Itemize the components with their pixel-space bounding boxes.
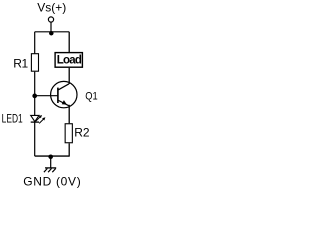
svg-text:R2: R2 [74, 126, 90, 140]
svg-text:R1: R1 [13, 56, 28, 70]
wire R1 to LED1 [34, 72, 36, 116]
wire R2 to bottom rail [68, 143, 70, 156]
supply terminal Vs [48, 17, 53, 22]
svg-text:Q1: Q1 [85, 91, 98, 103]
wire bottom rail [35, 155, 69, 157]
svg-text:Load: Load [57, 54, 82, 66]
load box [55, 53, 82, 68]
wire terminal to top rail [50, 22, 52, 32]
wire ground stub [50, 156, 52, 168]
LED1 [31, 115, 46, 123]
resistor R2 [65, 124, 72, 143]
wire base [35, 95, 58, 97]
svg-text:LED1: LED1 [2, 113, 23, 126]
junction ground [48, 155, 53, 160]
wire top rail to Load [68, 32, 70, 52]
junction base node [32, 94, 37, 99]
wire collector [68, 68, 70, 84]
svg-text:GND (0V): GND (0V) [23, 175, 81, 189]
wire top rail [35, 31, 69, 33]
wire left rail upper [34, 32, 36, 54]
wire LED to bottom rail [34, 122, 36, 156]
svg-text:Vs(+): Vs(+) [37, 1, 66, 15]
resistor R1 [31, 54, 38, 71]
ground [44, 168, 56, 172]
junction top rail [49, 31, 54, 36]
transistor Q1 [51, 81, 77, 107]
wire emitter [68, 105, 70, 124]
